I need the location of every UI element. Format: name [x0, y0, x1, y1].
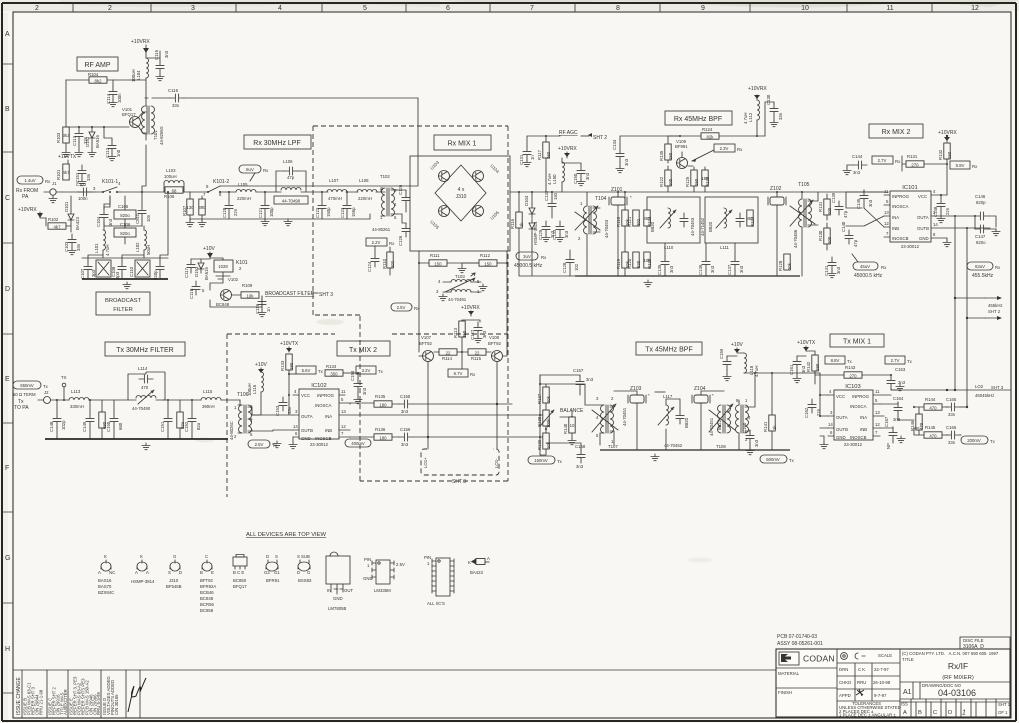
- svg-text:OUTA: OUTA: [836, 415, 848, 420]
- svg-text:K: K: [104, 554, 107, 559]
- svg-text:Rx: Rx: [895, 159, 901, 164]
- svg-text:INOSCB: INOSCB: [850, 435, 867, 440]
- svg-text:180: 180: [289, 362, 294, 370]
- svg-text:C145: C145: [856, 198, 861, 209]
- svg-text:44-71452: 44-71452: [700, 217, 705, 236]
- resistor R149b: [99, 400, 107, 439]
- svg-text:363: 363: [746, 216, 754, 221]
- capacitor C136: [698, 243, 715, 276]
- transformer T105: [790, 182, 818, 276]
- svg-text:100: 100: [827, 207, 832, 215]
- svg-text:R131: R131: [818, 201, 823, 212]
- transistor U103: [429, 159, 449, 181]
- svg-text:2.3V: 2.3V: [720, 146, 729, 151]
- resistor R130: [818, 223, 832, 250]
- broadcast filter boxed cap C110: [129, 260, 150, 277]
- resistor R103: [56, 80, 70, 150]
- svg-text:50 Ω TERM: 50 Ω TERM: [13, 392, 36, 397]
- svg-text:BC848: BC848: [200, 596, 214, 601]
- svg-text:+10VRX: +10VRX: [18, 207, 37, 213]
- svg-text:Tx 45MHz BPF: Tx 45MHz BPF: [645, 347, 692, 354]
- svg-text:363: 363: [643, 216, 651, 221]
- inductor L118: [737, 353, 759, 377]
- svg-text:Z102: Z102: [770, 186, 782, 192]
- capacitor C114: [106, 80, 122, 107]
- oval 2.5V Rx: [391, 303, 420, 311]
- resistor R128: [778, 254, 792, 271]
- svg-text:C158: C158: [575, 444, 586, 449]
- Rx 45MHz BPF label box: [665, 111, 732, 125]
- svg-text:470mH: 470mH: [328, 196, 342, 201]
- svg-text:R101: R101: [56, 169, 61, 180]
- svg-text:R136: R136: [375, 427, 386, 432]
- svg-text:C: C: [205, 554, 208, 559]
- svg-text:VCC: VCC: [836, 394, 845, 399]
- svg-text:C144: C144: [852, 154, 863, 159]
- svg-text:INOSCB: INOSCB: [315, 436, 332, 441]
- svg-text:BF545B: BF545B: [166, 584, 182, 589]
- svg-text:GND: GND: [363, 576, 373, 581]
- svg-text:180: 180: [815, 363, 820, 371]
- svg-text:3n3: 3n3: [836, 266, 841, 274]
- tank1 varicap L110: [650, 208, 695, 250]
- svg-text:3n3: 3n3: [108, 218, 113, 226]
- capacitor C111: [135, 192, 151, 226]
- svg-text:D: D: [297, 570, 300, 575]
- svg-text:3n3: 3n3: [624, 158, 629, 166]
- diode D152 BA516: [85, 128, 100, 148]
- svg-text:+10VRX: +10VRX: [131, 39, 150, 45]
- capacitor C159: [719, 348, 737, 381]
- svg-text:200mV: 200mV: [967, 438, 981, 443]
- svg-text:SCALE: SCALE: [878, 653, 892, 658]
- +10V L116: [255, 362, 267, 373]
- svg-text:R125: R125: [685, 176, 690, 187]
- svg-text:T102: T102: [380, 174, 390, 179]
- tank1 enclosure: [647, 197, 700, 243]
- svg-text:45000.5 kHz: 45000.5 kHz: [854, 273, 883, 279]
- svg-text:Tx MIX 1: Tx MIX 1: [843, 339, 871, 346]
- svg-text:L106: L106: [283, 159, 293, 164]
- main Rx wire: [62, 191, 208, 193]
- resistor R113: [453, 321, 467, 352]
- Rx FROM PA text: [16, 188, 38, 200]
- TX test point: [61, 375, 67, 401]
- resistor R111: [419, 253, 478, 267]
- capacitor C103: [64, 234, 81, 255]
- svg-text:23-30012: 23-30012: [901, 244, 920, 249]
- ground R103 C113 D152: [62, 150, 96, 157]
- svg-text:100k: 100k: [546, 418, 551, 428]
- svg-text:T108: T108: [716, 444, 726, 449]
- 3.2V Tx box label: [356, 366, 384, 374]
- broadcast filter cap C152: [153, 261, 164, 280]
- svg-text:BA423: BA423: [75, 216, 80, 230]
- svg-text:K101-1: K101-1: [102, 179, 118, 185]
- resistor R104: [66, 72, 146, 84]
- svg-text:L111: L111: [720, 245, 730, 250]
- legend device BSS83: [297, 554, 312, 583]
- resistor R133: [280, 354, 294, 395]
- svg-text:8.8V: 8.8V: [831, 358, 840, 363]
- capacitor C126a: [397, 184, 410, 212]
- svg-text:PIN: PIN: [364, 557, 371, 562]
- svg-text:D: D: [5, 286, 10, 293]
- 5.6V Tx box label: [289, 366, 324, 374]
- legend device BFT92: [200, 554, 216, 613]
- svg-text:Rx MIX 1: Rx MIX 1: [448, 141, 477, 148]
- svg-text:+10VRX: +10VRX: [748, 86, 767, 92]
- svg-text:82k: 82k: [707, 135, 715, 140]
- connector J1: [44, 181, 62, 203]
- svg-text:8k2: 8k2: [95, 79, 103, 84]
- diode D104 pair: [524, 191, 538, 250]
- svg-text:3: 3: [191, 5, 195, 12]
- svg-text:R138: R138: [537, 416, 542, 427]
- svg-text:C163: C163: [895, 367, 906, 372]
- svg-text:5.6V: 5.6V: [302, 368, 311, 373]
- svg-text:L108: L108: [359, 178, 369, 183]
- transformer T108 secondary: [736, 373, 756, 450]
- capacitor C166: [946, 425, 961, 445]
- svg-text:BFT92: BFT92: [488, 341, 502, 346]
- svg-text:Tx: Tx: [789, 458, 795, 463]
- svg-text:4.7uH: 4.7uH: [105, 245, 110, 256]
- svg-text:10: 10: [801, 5, 809, 12]
- transformer T107: [540, 384, 627, 449]
- svg-text:C146: C146: [975, 194, 986, 199]
- IC102 left connections: [252, 394, 293, 431]
- svg-text:RF AGC: RF AGC: [559, 130, 578, 136]
- +10VRX supply: [131, 39, 150, 58]
- svg-text:C110: C110: [129, 266, 134, 277]
- svg-text:1 PLACE DEC ± ANGULAR ±: 1 PLACE DEC ± ANGULAR ±: [839, 713, 896, 718]
- svg-text:INPROG: INPROG: [892, 194, 910, 199]
- svg-text:A: A: [98, 570, 101, 575]
- svg-text:C162: C162: [804, 407, 809, 418]
- svg-text:L101: L101: [94, 243, 99, 253]
- capacitor C116: [152, 88, 418, 108]
- svg-text:470: 470: [141, 385, 149, 390]
- svg-text:22n: 22n: [945, 207, 950, 215]
- svg-text:47p: 47p: [853, 239, 858, 247]
- svg-text:C123: C123: [340, 207, 345, 218]
- svg-text:C117: C117: [184, 267, 189, 278]
- svg-text:LM336M: LM336M: [374, 588, 391, 593]
- svg-text:BAS16: BAS16: [98, 578, 112, 583]
- +10VRX L112: [748, 86, 767, 99]
- balance input wires: [539, 375, 546, 455]
- svg-text:D104: D104: [524, 195, 529, 206]
- svg-text:VCC: VCC: [918, 194, 927, 199]
- resistor R124: [679, 127, 756, 140]
- top zone ticks: [73, 3, 932, 12]
- svg-text:INPROG: INPROG: [852, 394, 870, 399]
- inductor L102: [135, 226, 151, 258]
- svg-text:GND: GND: [919, 236, 929, 241]
- svg-text:L117: L117: [663, 394, 673, 399]
- svg-text:R102: R102: [48, 217, 59, 222]
- resistor R131: [902, 154, 948, 171]
- svg-text:GND: GND: [301, 436, 311, 441]
- svg-text:R145: R145: [925, 425, 936, 430]
- capacitor C128: [562, 250, 579, 276]
- svg-text:220mH: 220mH: [237, 196, 251, 201]
- input oval 1.4uV Rx: [17, 176, 51, 184]
- svg-text:150: 150: [701, 176, 709, 181]
- svg-text:C165: C165: [946, 397, 957, 402]
- svg-text:10k: 10k: [644, 258, 652, 263]
- svg-text:A: A: [146, 570, 149, 575]
- capacitor C104: [96, 204, 113, 227]
- transformer T101: [142, 98, 165, 145]
- capacitor C144: [843, 154, 867, 175]
- svg-text:DRN: DRN: [839, 667, 848, 672]
- svg-text:1s0: 1s0: [553, 192, 558, 200]
- 5.9V Rx box label: [950, 161, 978, 169]
- svg-text:C149: C149: [82, 421, 87, 432]
- svg-text:+10V: +10V: [731, 342, 743, 348]
- svg-text:LM7805B: LM7805B: [328, 606, 347, 611]
- svg-text:C11B: C11B: [189, 288, 194, 299]
- svg-text:12: 12: [875, 422, 880, 427]
- svg-text:R110: R110: [382, 258, 387, 269]
- capacitor C150: [562, 163, 590, 186]
- svg-text:12: 12: [884, 221, 889, 226]
- svg-text:INOSCA: INOSCA: [315, 403, 332, 408]
- svg-text:680: 680: [118, 422, 123, 430]
- svg-text:C151: C151: [160, 421, 165, 432]
- switch K101-2: [203, 179, 229, 197]
- broadcast bus: [82, 258, 168, 289]
- svg-text:INA: INA: [325, 414, 332, 419]
- svg-text:C148: C148: [933, 206, 938, 217]
- 6.7V Rx box label: [448, 352, 476, 377]
- svg-text:VCC: VCC: [301, 393, 310, 398]
- svg-text:BFT92: BFT92: [200, 578, 214, 583]
- svg-text:820p: 820p: [976, 200, 986, 205]
- oval 3uV Rx: [514, 252, 547, 269]
- capacitor C124a: [367, 246, 379, 272]
- svg-text:G2: G2: [264, 570, 270, 575]
- transistor V102: [216, 277, 239, 307]
- module dashed boundary: [313, 126, 508, 481]
- title block outline: [776, 649, 1010, 717]
- svg-text:C141: C141: [824, 265, 829, 276]
- svg-text:150: 150: [668, 152, 673, 160]
- 2.7V Tx box label: [885, 356, 913, 364]
- svg-text:INOSCB: INOSCB: [892, 236, 909, 241]
- svg-text:Rx: Rx: [389, 241, 395, 246]
- resistor R120: [627, 252, 641, 269]
- capacitor C152: [184, 399, 201, 439]
- svg-text:BROADCAST: BROADCAST: [105, 298, 142, 304]
- bpf ground bus: [519, 250, 800, 287]
- legend device LM336M: [363, 557, 405, 593]
- svg-text:13: 13: [875, 410, 880, 415]
- svg-text:T101: T101: [153, 130, 158, 140]
- capacitor C123: [340, 191, 356, 219]
- long vertical wires to Tx MIX1: [954, 215, 968, 408]
- svg-text:R118: R118: [616, 216, 621, 227]
- svg-text:C167: C167: [884, 416, 889, 427]
- capacitor C156: [399, 427, 540, 447]
- T101 to main line wire: [141, 145, 146, 193]
- svg-text:102p: 102p: [61, 420, 66, 430]
- svg-text:C125: C125: [538, 229, 543, 240]
- svg-text:C134: C134: [612, 139, 617, 150]
- svg-text:S: S: [168, 570, 171, 575]
- mixer enclosure box: [410, 156, 510, 251]
- svg-text:100: 100: [668, 178, 673, 186]
- +10VRX mix2: [938, 130, 957, 142]
- svg-text:R120: R120: [627, 258, 632, 269]
- svg-text:C150: C150: [573, 173, 578, 184]
- svg-text:INB: INB: [892, 226, 899, 231]
- svg-text:Tx: Tx: [907, 359, 913, 364]
- resistor R121b: [627, 210, 641, 227]
- svg-text:50uH: 50uH: [146, 245, 151, 255]
- transistor U105: [429, 206, 449, 231]
- K101 relay wires: [210, 276, 262, 307]
- svg-text:44-70493: 44-70493: [690, 217, 695, 236]
- svg-text:14: 14: [293, 424, 298, 429]
- svg-text:+10VTX: +10VTX: [280, 341, 299, 347]
- main Tx wire: [56, 399, 240, 401]
- svg-text:10k: 10k: [247, 294, 255, 299]
- capacitor C125: [538, 221, 555, 242]
- svg-text:Tx: Tx: [378, 369, 384, 374]
- svg-text:DISC FILE: DISC FILE: [963, 638, 984, 643]
- svg-text:T104: T104: [595, 196, 607, 202]
- svg-text:C152: C152: [184, 421, 189, 432]
- svg-text:1.4uV: 1.4uV: [24, 178, 35, 183]
- svg-text:SHT 2: SHT 2: [988, 309, 1001, 314]
- svg-text:C107: C107: [80, 268, 85, 279]
- +10VTX mix1: [797, 340, 816, 351]
- svg-text:IC101: IC101: [902, 185, 917, 191]
- svg-text:L115: L115: [203, 389, 213, 394]
- svg-text:Z101: Z101: [611, 187, 623, 193]
- svg-text:150: 150: [947, 151, 952, 159]
- svg-text:22n: 22n: [816, 408, 821, 416]
- resistor R115: [462, 349, 491, 361]
- svg-text:33n: 33n: [172, 103, 180, 108]
- oval 650mV Tx: [13, 381, 49, 411]
- svg-text:7: 7: [530, 5, 534, 12]
- svg-text:A: A: [5, 31, 10, 38]
- svg-text:44-70486: 44-70486: [793, 229, 798, 248]
- svg-text:R141: R141: [763, 421, 768, 432]
- svg-text:C166: C166: [946, 425, 957, 430]
- svg-text:ALL I/C'S: ALL I/C'S: [427, 601, 445, 606]
- tx ground bus: [45, 439, 228, 450]
- resistor R131t: [818, 194, 832, 220]
- svg-text:470: 470: [929, 406, 937, 411]
- svg-text:IN: IN: [327, 588, 331, 593]
- svg-text:ASSY 08-05261-001: ASSY 08-05261-001: [777, 641, 823, 647]
- svg-text:R103: R103: [56, 132, 61, 143]
- svg-text:6.7V: 6.7V: [454, 371, 463, 376]
- left zone ticks: [2, 64, 13, 693]
- svg-text:G: G: [5, 555, 10, 562]
- svg-text:C122: C122: [315, 207, 320, 218]
- svg-text:L113: L113: [71, 389, 81, 394]
- resistor R140: [563, 417, 576, 445]
- BROADCAST FILTER sht ref: [265, 291, 333, 298]
- transformer T106: [229, 392, 253, 440]
- svg-text:260: 260: [546, 151, 551, 159]
- resistor R146: [910, 407, 924, 435]
- transistor V109: [675, 139, 693, 169]
- main 45MHz wire: [510, 191, 888, 193]
- svg-text:BA423: BA423: [470, 570, 484, 575]
- relay K101: [210, 258, 248, 279]
- capacitor C121: [258, 191, 274, 226]
- svg-text:C157: C157: [573, 368, 584, 373]
- transistor V101: [122, 107, 146, 133]
- svg-text:PA: PA: [22, 194, 29, 200]
- svg-text:C130: C130: [766, 94, 771, 105]
- svg-text:A: A: [903, 710, 907, 716]
- svg-text:L116: L116: [252, 384, 257, 394]
- capacitor C145: [856, 190, 873, 209]
- svg-text:Rx: Rx: [470, 372, 476, 377]
- svg-text:270: 270: [849, 374, 857, 379]
- svg-text:11: 11: [886, 5, 893, 12]
- svg-text:470: 470: [919, 422, 924, 430]
- crystal Z101: [609, 187, 632, 250]
- legend device LM7805: [326, 552, 353, 611]
- main wire after K101-2: [228, 191, 381, 193]
- svg-text:1n: 1n: [266, 307, 271, 312]
- svg-text:1: 1: [962, 710, 966, 717]
- broadcast filter interconnect wires: [88, 191, 169, 258]
- svg-text:4k7: 4k7: [63, 170, 71, 175]
- IC103 pins: [828, 389, 891, 436]
- switch K101-1: [93, 179, 121, 204]
- svg-text:44-70493: 44-70493: [604, 219, 609, 238]
- inductor L116: [247, 372, 264, 415]
- resistor R129: [644, 252, 652, 269]
- svg-text:Rx: Rx: [45, 179, 51, 184]
- svg-text:44-70490: 44-70490: [132, 406, 151, 411]
- svg-text:OUTA: OUTA: [917, 215, 929, 220]
- svg-text:V102: V102: [228, 277, 239, 282]
- +10VTX ic102: [280, 341, 299, 352]
- IC103 left connections: [819, 373, 828, 449]
- svg-text:22: 22: [475, 351, 480, 356]
- svg-text:OUTB: OUTB: [836, 427, 848, 432]
- svg-text:C135: C135: [657, 264, 662, 275]
- svg-text:RF AMP: RF AMP: [84, 62, 110, 69]
- svg-text:V107: V107: [421, 335, 432, 340]
- Rx MIX 1 label box: [434, 135, 491, 150]
- legend device DIP16: [424, 555, 454, 606]
- svg-text:C113: C113: [72, 135, 77, 146]
- svg-text:44-80261: 44-80261: [372, 227, 391, 232]
- svg-text:4 x: 4 x: [458, 187, 465, 193]
- +10VRX mixer: [461, 305, 480, 322]
- capacitor C141: [824, 257, 841, 278]
- svg-text:3n3: 3n3: [564, 230, 569, 238]
- svg-text:44-70498: 44-70498: [282, 199, 301, 204]
- svg-text:OUTA: OUTA: [301, 414, 313, 419]
- svg-text:100p: 100p: [269, 207, 274, 217]
- svg-text:C: C: [5, 195, 10, 202]
- Tx MIX 1 label box: [830, 334, 884, 347]
- svg-text:K: K: [468, 560, 471, 565]
